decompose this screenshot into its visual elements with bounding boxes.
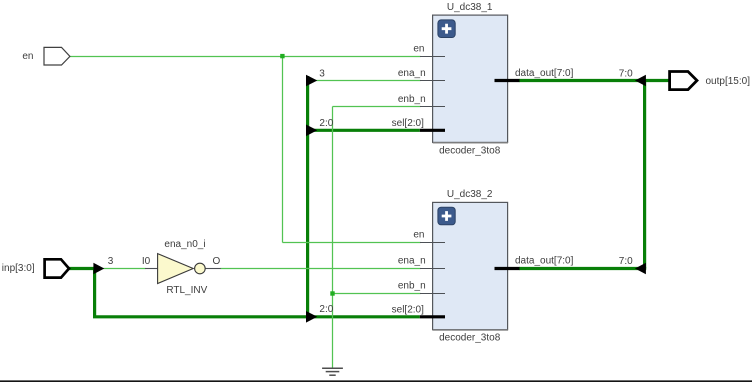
bus: inp[3:0] from port	[69, 267, 97, 270]
svg-text:sel[2:0]: sel[2:0]	[392, 305, 424, 316]
svg-text:inp[3:0]: inp[3:0]	[2, 263, 35, 274]
arrowhead A5: 7:0 into outp bus (top)	[635, 75, 646, 86]
bus: data_out U2 horizontal	[519, 267, 646, 270]
svg-text:U_dc38_1: U_dc38_1	[447, 2, 493, 13]
pin stub: U1 data_out[7:0] (bus, right)	[495, 79, 520, 82]
svg-text:2:0: 2:0	[319, 304, 333, 315]
wire: inverter output net to U_dc38_2 ena_n	[221, 268, 421, 270]
bus: left vertical bus x=307.6	[306, 76, 309, 317]
ground symbol	[322, 368, 343, 375]
svg-text:sel[2:0]: sel[2:0]	[392, 118, 424, 129]
pin stub: U1 sel[2:0] (bus)	[420, 129, 445, 132]
pin stub: U1 enb_n	[420, 106, 445, 108]
bus: right vertical bus x=644.5	[643, 81, 646, 269]
block: U_dc38_2 decoder_3to8	[392, 189, 574, 344]
svg-text:decoder_3to8: decoder_3to8	[439, 145, 501, 156]
arrowhead A2: bit 3 to U1 ena_n	[306, 75, 317, 87]
svg-text:en: en	[22, 51, 33, 62]
svg-text:ena_n: ena_n	[398, 256, 426, 267]
arrowhead A6: 7:0 into outp bus (bottom)	[635, 263, 646, 274]
svg-text:ena_n: ena_n	[398, 68, 426, 79]
arrowhead A1: inp[3] tap	[93, 263, 104, 275]
pin stub: U2 enb_n	[420, 293, 445, 295]
block: U_dc38_1 decoder_3to8	[392, 2, 574, 157]
pin stub: U2 en	[420, 242, 445, 244]
pin stub: inverter O	[206, 268, 221, 270]
inverter triangle	[158, 254, 194, 284]
svg-text:3: 3	[319, 69, 325, 80]
bus: inp vertical at x=95	[93, 267, 96, 317]
pin stub: U2 ena_n	[420, 268, 445, 270]
arrowhead A4: 2:0 to U2 sel	[306, 311, 317, 323]
pin stub: U2 sel[2:0] (bus)	[420, 315, 445, 318]
icon: expand + (U1)	[438, 20, 455, 38]
svg-text:RTL_INV: RTL_INV	[166, 285, 207, 296]
wire: en net horizontal from en port to U_dc38_1 en pin	[70, 56, 421, 58]
wire: enb_n net horizontal to U_dc38_1	[333, 106, 421, 108]
node: gnd net junction dot	[330, 291, 334, 295]
wire: en net vertical branch at x=282	[282, 57, 284, 243]
svg-text:en: en	[413, 44, 424, 55]
inverter bubble	[195, 263, 206, 274]
pin stub: U2 data_out[7:0] (bus, right)	[495, 267, 520, 270]
svg-text:2:0: 2:0	[319, 118, 333, 129]
svg-text:outp[15:0]: outp[15:0]	[706, 76, 751, 87]
port: inp[3:0] input	[45, 259, 69, 277]
svg-text:ena_n0_i: ena_n0_i	[164, 239, 205, 250]
port: en input	[44, 47, 70, 65]
inverter ena_n0_i RTL_INV	[142, 239, 221, 296]
arrowhead A3: 2:0 to U1 sel	[306, 125, 317, 137]
node: en net junction dot	[280, 54, 284, 58]
icon: expand + (U2)	[438, 207, 455, 225]
pin stub: U1 ena_n	[420, 80, 445, 82]
svg-text:enb_n: enb_n	[398, 281, 426, 292]
wire: ena_n net to U_dc38_1 (bit 3 tap)	[308, 80, 421, 82]
svg-text:decoder_3to8: decoder_3to8	[439, 333, 501, 344]
svg-text:U_dc38_2: U_dc38_2	[447, 189, 493, 200]
wire: inp[3] tap to inverter input	[103, 268, 146, 270]
pin stub: inverter I0	[145, 268, 158, 270]
svg-text:3: 3	[108, 256, 114, 267]
wire: en net horizontal to U_dc38_2 en pin	[283, 242, 421, 244]
wire: enb_n (gnd) net vertical at x=331.9	[332, 107, 334, 369]
bottom panel border	[0, 380, 752, 382]
bus: sel[2:0] horizontal to U_dc38_2	[93, 315, 420, 318]
svg-text:7:0: 7:0	[619, 256, 633, 267]
svg-text:enb_n: enb_n	[398, 94, 426, 105]
svg-text:I0: I0	[142, 256, 151, 267]
svg-text:O: O	[213, 256, 221, 267]
svg-text:en: en	[413, 230, 424, 241]
svg-text:data_out[7:0]: data_out[7:0]	[515, 68, 574, 79]
svg-text:7:0: 7:0	[619, 69, 633, 80]
bus: data_out U1 to outp port	[519, 79, 669, 82]
port: outp[15:0] output	[670, 72, 697, 90]
pin stub: U1 en	[420, 56, 445, 58]
svg-text:data_out[7:0]: data_out[7:0]	[515, 256, 574, 267]
wire: enb_n net horizontal to U_dc38_2	[333, 293, 421, 295]
bus: sel[2:0] horizontal to U_dc38_1	[308, 129, 420, 132]
